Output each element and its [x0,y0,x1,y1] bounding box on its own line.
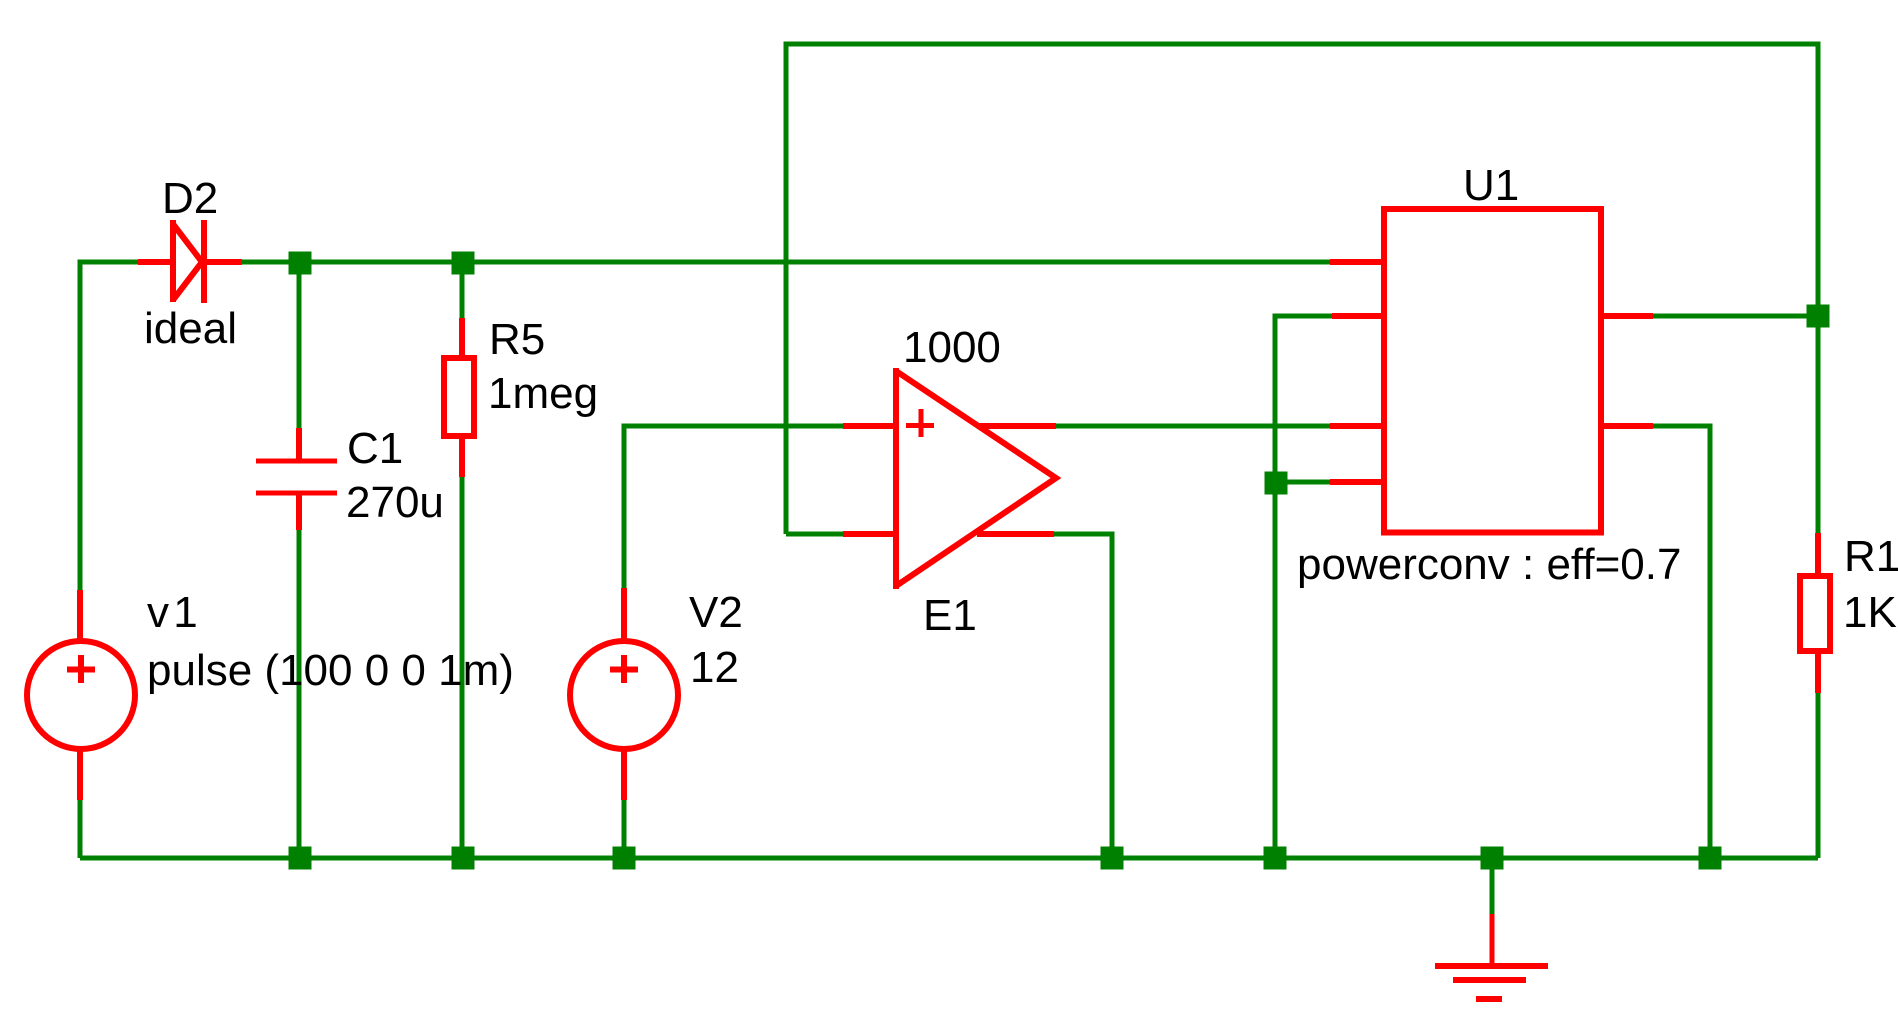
source V2 circle [570,641,678,749]
svg-text:V2: V2 [689,588,743,637]
wire v1 bottom stub [78,800,83,858]
svg-text:C1: C1 [347,424,403,473]
block U1 pin4 stub [1330,479,1384,485]
wire R5 bottom to bus [460,477,465,858]
svg-text:powerconv : eff=0.7: powerconv : eff=0.7 [1297,540,1681,589]
capacitor C1 bottom stub [296,493,302,530]
source V2 bottom stub [621,749,627,800]
node junction bus 1 [289,847,312,870]
svg-text:D2: D2 [162,174,218,223]
op-amp E1 out- stub [977,531,1054,537]
node junction right rail [1807,305,1830,328]
wire E1 out- down to bus [1054,534,1112,858]
wire main node horizontal [242,260,1330,265]
source V2 plus sign [610,655,638,683]
svg-text:1meg: 1meg [488,369,598,418]
diode D2 anode wire [138,259,173,265]
block U1 out1 stub [1601,313,1653,319]
ground stem [1490,914,1495,967]
wire feedback top loop [786,44,1818,534]
op-amp E1 plus input stub [843,423,896,429]
svg-text:U1: U1 [1463,161,1519,210]
op-amp E1 out+ stub [977,423,1056,429]
block U1 out2 stub [1601,423,1653,429]
resistor R1 bottom stub [1815,651,1821,693]
source v1 top stub [77,590,83,641]
node junction B (node 463,262) [452,252,475,275]
wire U1 out1 to right rail [1653,314,1818,319]
svg-text:ideal: ideal [144,304,237,353]
svg-text:1000: 1000 [903,323,1001,372]
ground bar 1 [1435,963,1548,969]
node junction bus 3 [613,847,636,870]
node junction bus 4 [1101,847,1124,870]
resistor R5 top stub [459,318,465,358]
wire U1 pin2 loop to bus [1275,316,1332,858]
node junction bus 5 [1264,847,1287,870]
block U1 pin1 stub [1330,259,1383,265]
capacitor C1 bottom plate [256,491,337,496]
ground bar 2 [1453,977,1526,983]
wire R1 bottom [1816,693,1821,858]
op-amp E1 plus sign [906,409,934,437]
wire R5 top stub [460,262,465,318]
wire ground bus [80,856,1818,861]
diode D2 triangle [170,220,176,302]
block U1 body [1384,209,1601,533]
node junction bus 2 [452,847,475,870]
svg-text:12: 12 [690,643,739,692]
wire C1 top stub [297,262,302,428]
resistor R1 body [1800,576,1830,651]
node junction bus ground [1481,847,1504,870]
wire V2 to E1 plus input [624,426,843,588]
svg-text:E1: E1 [923,591,977,640]
svg-text:R1: R1 [1844,532,1898,581]
node junction A (node 299,262) [289,252,312,275]
svg-text:270u: 270u [346,478,444,527]
wire v1 top branch [80,262,138,590]
node junction bus 6 [1699,847,1722,870]
resistor R1 top stub [1815,533,1821,576]
wire E1 minus input [786,532,843,537]
ground bar 3 [1476,996,1502,1002]
diode D2 cathode bar [201,220,207,303]
wire U1 out2 down to bus [1653,426,1710,858]
capacitor C1 top plate [256,459,337,464]
op-amp E1 triangle [893,368,899,589]
diode D2 cathode wire [204,259,242,265]
source v1 plus sign [67,655,95,683]
wire E1 out+ to U1 [1056,424,1330,429]
block U1 pin2 stub [1332,313,1383,319]
wire V2 bottom stub [622,800,627,858]
svg-text:v 1: v 1 [147,588,196,637]
wire C1 bottom to bus [297,530,302,858]
svg-text:1K: 1K [1843,588,1897,637]
source v1 circle [27,641,135,749]
wire U1 pin4 stub [1275,480,1330,485]
resistor R5 bottom stub [459,436,465,477]
resistor R5 body [444,358,474,436]
op-amp E1 minus input stub [843,531,896,537]
source V2 top stub [621,588,627,641]
svg-text:R5: R5 [489,315,545,364]
wire ground stub [1490,858,1495,914]
block U1 pin3 stub [1330,423,1383,429]
svg-text:pulse (100 0 0 1m): pulse (100 0 0 1m) [147,646,514,695]
capacitor C1 top stub [296,428,302,461]
source v1 bottom stub [77,749,83,800]
node junction U1 pin4 [1265,472,1288,495]
